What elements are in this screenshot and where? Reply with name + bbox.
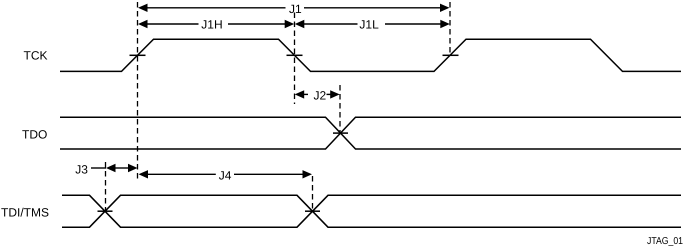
- wire J1 dimension line left segment: [146, 7, 286, 9]
- wire J1H dimension line left segment: [146, 23, 199, 25]
- wire TDI/TMS bus bottom line: [62, 195, 681, 227]
- wire dashed reference line at second TDI/TMS transition x=312.5: [312, 176, 314, 210]
- node J3 right arrowhead: [128, 164, 138, 172]
- wire J1L dimension line left segment: [303, 23, 358, 25]
- node J3 left arrowhead: [106, 164, 116, 172]
- node J1H right arrowhead: [285, 20, 295, 28]
- wire dashed reference line at first TDI/TMS transition x=105.5: [105, 162, 107, 210]
- node J1 right arrowhead: [440, 4, 450, 12]
- node J2 right arrowhead: [330, 90, 340, 98]
- wire TCK waveform: [60, 39, 681, 71]
- node J1L right arrowhead: [440, 20, 450, 28]
- svg-text:J2: J2: [314, 88, 327, 102]
- wire TDI/TMS bus top line: [62, 195, 681, 227]
- svg-text:JTAG_01: JTAG_01: [647, 236, 683, 247]
- wire J2 dimension line right segment: [327, 93, 332, 95]
- node J2 left arrowhead: [295, 90, 305, 98]
- node TDI/TMS transition tick 2: [305, 210, 320, 212]
- svg-text:J1H: J1H: [201, 18, 222, 32]
- wire dashed reference line at TDO transition x=340: [339, 85, 341, 132]
- svg-text:J1L: J1L: [359, 18, 379, 32]
- node J4 left arrowhead: [139, 170, 149, 178]
- svg-text:TDO: TDO: [22, 127, 47, 141]
- node J1L left arrowhead: [295, 20, 305, 28]
- node J1H left arrowhead: [138, 20, 148, 28]
- wire TDO bus bottom line: [60, 117, 681, 149]
- wire J1L dimension line right segment: [385, 23, 441, 25]
- wire J3 leader line from label: [91, 167, 106, 169]
- node J1 left arrowhead: [138, 4, 148, 12]
- node TCK rising-edge tick 2: [443, 54, 459, 56]
- wire J3 dimension line middle segment: [115, 167, 129, 169]
- node TCK falling-edge tick: [287, 54, 303, 56]
- wire TDO bus top line: [60, 117, 681, 149]
- svg-text:J1: J1: [289, 2, 302, 16]
- svg-text:TCK: TCK: [24, 49, 48, 63]
- node J4 right arrowhead: [303, 170, 313, 178]
- wire dashed reference line at first TCK rising edge x=137.5: [137, 2, 139, 179]
- wire J1 dimension line right segment: [304, 7, 441, 9]
- svg-text:J3: J3: [75, 162, 88, 176]
- svg-text:TDI/TMS: TDI/TMS: [1, 206, 49, 220]
- svg-text:J4: J4: [219, 168, 232, 182]
- wire J4 dimension line left segment: [147, 173, 216, 175]
- node TDO transition tick: [333, 132, 348, 134]
- wire dashed reference line at second TCK rising edge x=450: [449, 2, 451, 56]
- wire J4 dimension line right segment: [234, 173, 304, 175]
- wire dashed reference line at TCK falling edge x=294.5: [294, 13, 296, 105]
- node TDI/TMS transition tick 1: [98, 210, 113, 212]
- node TCK rising-edge tick 1: [130, 54, 146, 56]
- wire J1H dimension line right segment: [228, 23, 286, 25]
- wire J2 dimension line left segment: [303, 93, 308, 95]
